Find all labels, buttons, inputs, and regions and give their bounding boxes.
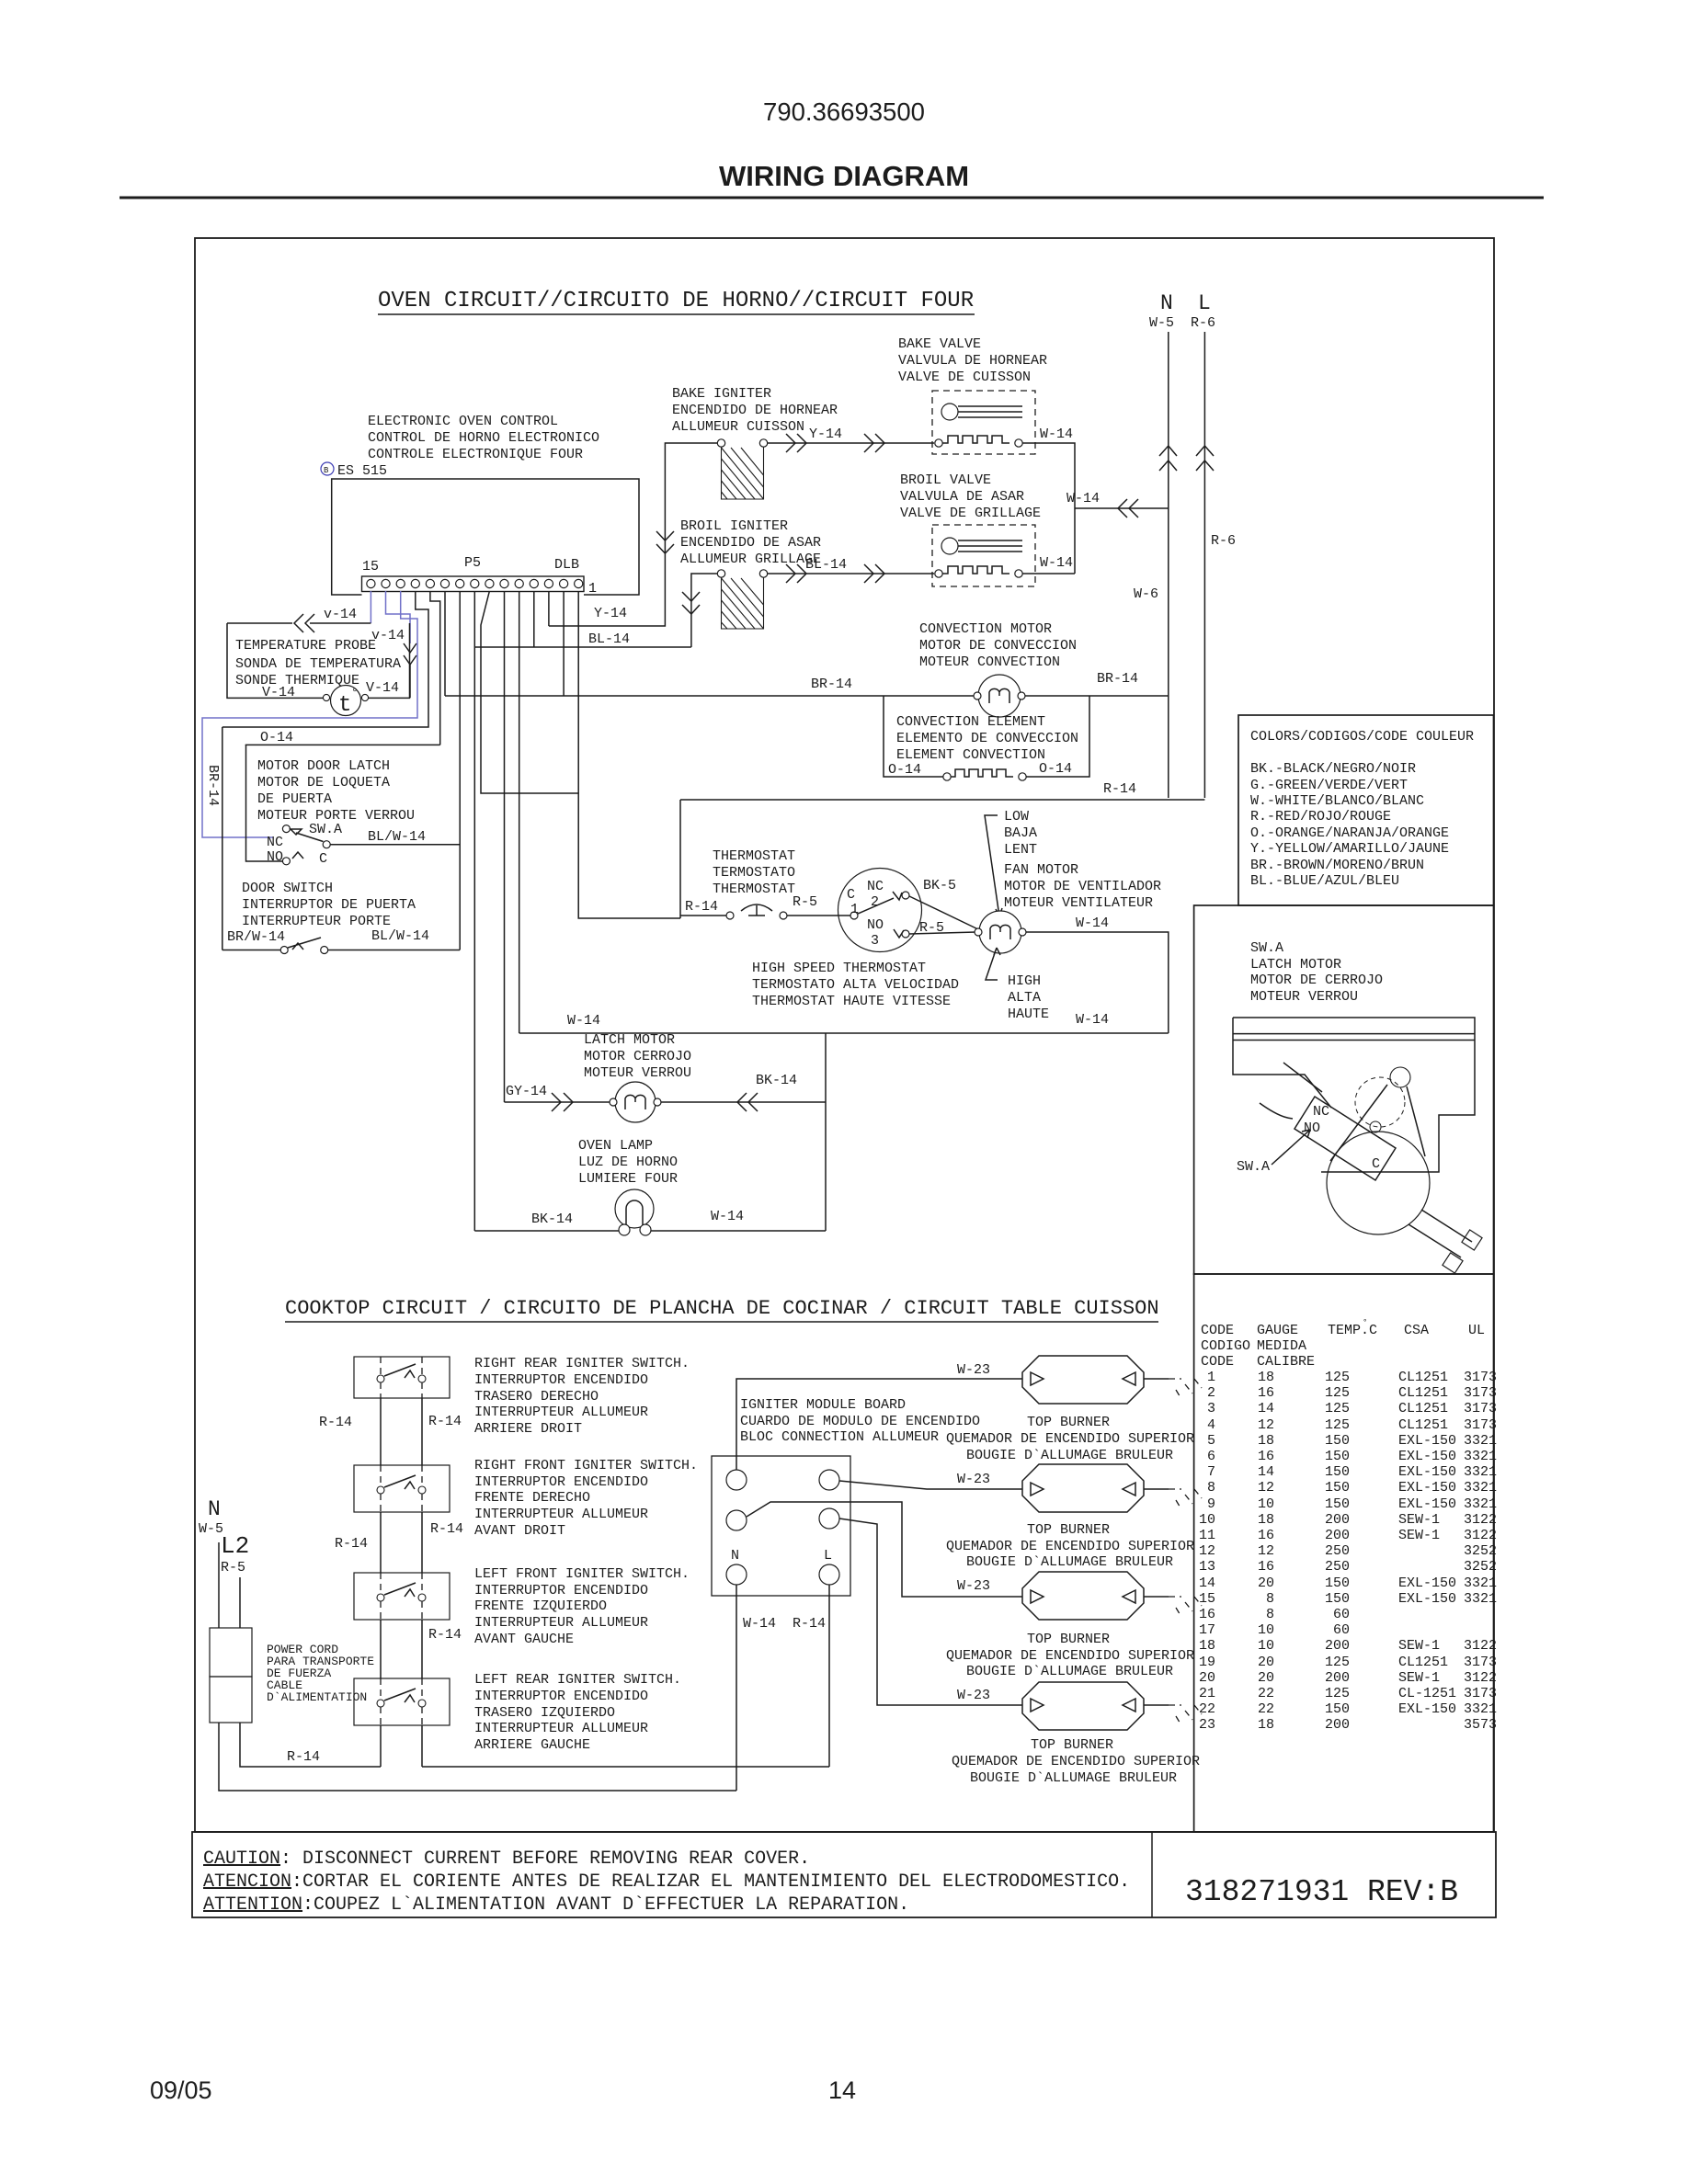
wire BK-14 latch motor — [661, 1033, 826, 1231]
top burner B3 octagon — [1022, 1572, 1144, 1620]
svg-text:17: 17 — [1199, 1622, 1215, 1638]
table rows — [1199, 1370, 1497, 1733]
svg-text:BLOC CONNECTION ALLUMEUR: BLOC CONNECTION ALLUMEUR — [740, 1429, 939, 1445]
svg-text:O.-ORANGE/NARANJA/ORANGE: O.-ORANGE/NARANJA/ORANGE — [1250, 825, 1449, 841]
svg-text:TOP BURNER: TOP BURNER — [1031, 1737, 1113, 1753]
wire pin6 to BR-14 line — [444, 591, 446, 696]
svg-text:EXL-150: EXL-150 — [1398, 1449, 1456, 1464]
svg-text:MOTEUR VERROU: MOTEUR VERROU — [1250, 989, 1358, 1005]
broil valve dashed box — [932, 525, 1035, 586]
svg-text:BROIL VALVE: BROIL VALVE — [900, 472, 991, 488]
svg-text:CONVECTION MOTOR: CONVECTION MOTOR — [919, 621, 1052, 637]
svg-text:W-14: W-14 — [1076, 916, 1109, 931]
wire BL/W-14 from common — [330, 844, 460, 846]
wire N to power cord — [218, 1542, 220, 1628]
svg-text:LATCH MOTOR: LATCH MOTOR — [584, 1032, 675, 1048]
svg-text:SW.A: SW.A — [1237, 1159, 1270, 1175]
latch lever line — [1260, 1063, 1322, 1119]
svg-text:W-23: W-23 — [957, 1472, 990, 1487]
wire pin15 to thermostat R-14 — [578, 591, 680, 918]
svg-text:SW.A: SW.A — [309, 822, 342, 837]
svg-text:EXL-150: EXL-150 — [1398, 1480, 1456, 1496]
wire pin2 violet jog — [386, 591, 411, 643]
svg-text:10: 10 — [1258, 1496, 1274, 1512]
svg-text:3173: 3173 — [1464, 1686, 1497, 1701]
wires between switch 2 and 3 — [381, 1512, 422, 1573]
svg-text:125: 125 — [1325, 1417, 1350, 1433]
svg-text:AVANT GAUCHE: AVANT GAUCHE — [474, 1632, 574, 1647]
svg-text:FAN MOTOR: FAN MOTOR — [1004, 862, 1078, 878]
wire pin7 to door switch — [459, 591, 461, 950]
svg-text:FRENTE IZQUIERDO: FRENTE IZQUIERDO — [474, 1598, 607, 1614]
svg-text:W-14: W-14 — [1040, 427, 1073, 442]
svg-text:W-14: W-14 — [743, 1616, 776, 1632]
svg-text:O-14: O-14 — [260, 730, 293, 745]
wire module to burner 3 — [747, 1502, 1022, 1597]
caution box — [192, 1832, 1496, 1917]
wire N power cord to module — [219, 1723, 736, 1791]
svg-text:3252: 3252 — [1464, 1543, 1497, 1559]
dashed contact risers box1 — [381, 1357, 422, 1398]
chevrons up on L — [1196, 446, 1214, 471]
wire pin8 to BL-14 and oven lamp — [473, 591, 475, 1231]
svg-text:MEDIDA: MEDIDA — [1257, 1338, 1306, 1354]
broil valve element — [935, 570, 942, 577]
svg-text:W-14: W-14 — [567, 1013, 600, 1029]
svg-text:TERMOSTATO ALTA VELOCIDAD: TERMOSTATO ALTA VELOCIDAD — [752, 977, 959, 993]
svg-text:ELEMENT CONVECTION: ELEMENT CONVECTION — [896, 747, 1045, 763]
svg-text:BK-5: BK-5 — [923, 878, 956, 893]
wire pin9 to R-14 bus — [481, 591, 578, 793]
wire R-14 power cord to switches — [240, 1723, 381, 1767]
svg-text:GAUGE: GAUGE — [1257, 1323, 1298, 1338]
svg-text:B: B — [324, 466, 329, 475]
wire L2 to power cord — [239, 1577, 241, 1628]
svg-text:22: 22 — [1199, 1701, 1215, 1717]
svg-text:°: ° — [1363, 1318, 1367, 1327]
wire lamp left BK-14 — [474, 1230, 619, 1232]
wire gauge table box — [1194, 1274, 1494, 1832]
switch S4 contacts — [377, 1486, 384, 1494]
svg-text:V-14: V-14 — [366, 680, 399, 696]
svg-text:TEMP.C: TEMP.C — [1328, 1323, 1377, 1338]
svg-text:N: N — [208, 1497, 221, 1521]
svg-text:MOTOR DOOR LATCH: MOTOR DOOR LATCH — [257, 758, 390, 774]
latch cone lines — [1330, 1085, 1425, 1161]
ES 515 logo — [321, 462, 334, 475]
svg-text:ALLUMEUR CUISSON: ALLUMEUR CUISSON — [672, 419, 804, 435]
svg-text:3573: 3573 — [1464, 1717, 1497, 1733]
svg-text:Y.-YELLOW/AMARILLO/JAUNE: Y.-YELLOW/AMARILLO/JAUNE — [1250, 841, 1449, 857]
latch cam small circle — [1390, 1067, 1410, 1087]
svg-text:THERMOSTAT HAUTE VITESSE: THERMOSTAT HAUTE VITESSE — [752, 994, 951, 1009]
chevrons GY-14 — [552, 1093, 573, 1111]
svg-text:3173: 3173 — [1464, 1401, 1497, 1416]
svg-text:O-14: O-14 — [1039, 761, 1072, 777]
svg-text:20: 20 — [1258, 1655, 1274, 1670]
wire bake igniter left to Y-14 drop — [549, 443, 717, 626]
svg-text:3321: 3321 — [1464, 1464, 1497, 1480]
svg-text:3122: 3122 — [1464, 1670, 1497, 1686]
latch cam dashed circle — [1355, 1077, 1405, 1127]
svg-text:LENT: LENT — [1004, 842, 1037, 858]
svg-text:ATENCION:CORTAR EL CORIENTE AN: ATENCION:CORTAR EL CORIENTE ANTES DE REA… — [203, 1871, 1130, 1893]
svg-text:18: 18 — [1258, 1717, 1274, 1733]
svg-text:CL1251: CL1251 — [1398, 1655, 1448, 1670]
svg-text:CL1251: CL1251 — [1398, 1401, 1448, 1416]
outer diagram frame — [195, 238, 1494, 1832]
svg-text:3122: 3122 — [1464, 1528, 1497, 1543]
svg-text:VALVULA DE ASAR: VALVULA DE ASAR — [900, 489, 1024, 505]
svg-text:125: 125 — [1325, 1385, 1350, 1401]
svg-text:VALVULA DE HORNEAR: VALVULA DE HORNEAR — [898, 353, 1047, 369]
svg-text:LATCH MOTOR: LATCH MOTOR — [1250, 957, 1341, 973]
svg-text:INTERRUPTEUR ALLUMEUR: INTERRUPTEUR ALLUMEUR — [474, 1721, 648, 1736]
svg-text:3321: 3321 — [1464, 1701, 1497, 1717]
wire N vertical — [1168, 332, 1169, 798]
svg-text:QUEMADOR DE ENCENDIDO SUPERIOR: QUEMADOR DE ENCENDIDO SUPERIOR — [946, 1648, 1194, 1664]
svg-text:200: 200 — [1325, 1670, 1350, 1686]
svg-text:3173: 3173 — [1464, 1370, 1497, 1385]
svg-text:COOKTOP CIRCUIT / CIRCUITO DE: COOKTOP CIRCUIT / CIRCUITO DE PLANCHA DE… — [285, 1297, 1159, 1320]
svg-text:R-14: R-14 — [793, 1616, 826, 1632]
bake valve element — [935, 439, 942, 447]
svg-text:TERMOSTATO: TERMOSTATO — [713, 865, 795, 881]
svg-text:8: 8 — [1266, 1607, 1274, 1622]
convection element box — [884, 696, 1089, 777]
svg-text:NC: NC — [1313, 1104, 1329, 1120]
v-14 arrowhead and break — [404, 643, 416, 698]
svg-text:19: 19 — [1199, 1655, 1215, 1670]
svg-text:BK-14: BK-14 — [756, 1073, 797, 1088]
wire pin11 to W-14 bus — [519, 591, 520, 1033]
svg-text:10: 10 — [1258, 1638, 1274, 1654]
svg-text:EXL-150: EXL-150 — [1398, 1575, 1456, 1591]
svg-text:W-6: W-6 — [1134, 586, 1158, 602]
svg-text:125: 125 — [1325, 1370, 1350, 1385]
svg-text:R-14: R-14 — [428, 1414, 462, 1429]
svg-text:t: t — [338, 693, 351, 718]
svg-text:L2: L2 — [221, 1532, 249, 1560]
svg-text:BR-14: BR-14 — [811, 677, 852, 692]
svg-text:D`ALIMENTATION: D`ALIMENTATION — [267, 1690, 367, 1704]
svg-text:EXL-150: EXL-150 — [1398, 1591, 1456, 1607]
selector contacts — [850, 912, 858, 919]
wires between switch 1 and 2 — [381, 1398, 422, 1465]
svg-text:INTERRUPTOR ENCENDIDO: INTERRUPTOR ENCENDIDO — [474, 1689, 648, 1704]
svg-text:FRENTE DERECHO: FRENTE DERECHO — [474, 1490, 590, 1506]
switch S3 contacts — [377, 1375, 384, 1382]
svg-text:BR.-BROWN/MORENO/BRUN: BR.-BROWN/MORENO/BRUN — [1250, 858, 1424, 873]
svg-text:1: 1 — [850, 902, 859, 917]
W-14 bus bottom — [519, 1032, 1169, 1034]
wire BL-14 broil igniter to broil valve — [768, 573, 934, 574]
wire module L down — [828, 1585, 830, 1767]
oven lamp DS1 — [615, 1189, 654, 1228]
svg-text:INTERRUPTEUR ALLUMEUR: INTERRUPTEUR ALLUMEUR — [474, 1507, 648, 1522]
svg-text:200: 200 — [1325, 1638, 1350, 1654]
svg-text:150: 150 — [1325, 1496, 1350, 1512]
svg-text:TEMPERATURE PROBE: TEMPERATURE PROBE — [235, 638, 376, 654]
SW.A latch motor box — [1194, 905, 1494, 1274]
bracket high to motor — [986, 948, 1000, 980]
svg-text:SEW-1: SEW-1 — [1398, 1670, 1440, 1686]
svg-text:R-14: R-14 — [1103, 781, 1136, 797]
svg-text:CL-1251: CL-1251 — [1398, 1686, 1456, 1701]
svg-text:BK-14: BK-14 — [531, 1211, 573, 1227]
svg-text:CONTROLE ELECTRONIQUE FOUR: CONTROLE ELECTRONIQUE FOUR — [368, 447, 583, 462]
svg-text:3: 3 — [1207, 1401, 1215, 1416]
connector P5 strip — [362, 576, 585, 592]
svg-text:ENCENDIDO DE ASAR: ENCENDIDO DE ASAR — [680, 535, 821, 551]
svg-text:R-5: R-5 — [793, 894, 817, 910]
down chevrons broil feed — [682, 592, 700, 614]
down chevrons on bake igniter feed — [656, 531, 674, 553]
igniter switch S5 box left front — [354, 1573, 450, 1620]
wire Y-14 bake igniter to bake valve — [768, 442, 934, 444]
svg-text:3122: 3122 — [1464, 1638, 1497, 1654]
svg-text:3321: 3321 — [1464, 1433, 1497, 1449]
svg-text:BOUGIE D`ALLUMAGE BRULEUR: BOUGIE D`ALLUMAGE BRULEUR — [966, 1664, 1173, 1679]
svg-text:125: 125 — [1325, 1401, 1350, 1416]
oven title underline — [378, 313, 975, 315]
latch assembly switch body — [1295, 1097, 1396, 1180]
igniter module board box — [712, 1456, 850, 1596]
svg-text:125: 125 — [1325, 1686, 1350, 1701]
svg-text:CAUTION: DISCONNECT CURRENT BE: CAUTION: DISCONNECT CURRENT BEFORE REMOV… — [203, 1848, 810, 1870]
wire O-14 run to door latch — [246, 745, 440, 861]
svg-text:13: 13 — [1199, 1559, 1215, 1575]
svg-text:BL-14: BL-14 — [805, 557, 847, 573]
svg-text:W-23: W-23 — [957, 1688, 990, 1703]
svg-text:INTERRUPTOR ENCENDIDO: INTERRUPTOR ENCENDIDO — [474, 1372, 648, 1388]
svg-text:MOTOR DE VENTILADOR: MOTOR DE VENTILADOR — [1004, 879, 1161, 894]
svg-text:W-14: W-14 — [1066, 491, 1100, 506]
svg-text:CONVECTION ELEMENT: CONVECTION ELEMENT — [896, 714, 1045, 730]
wire pin5 to O-14 — [430, 591, 440, 745]
temperature probe box — [227, 623, 410, 698]
temperature probe sensor t — [331, 686, 361, 716]
bracket low to motor — [985, 815, 1002, 916]
svg-text:BK.-BLACK/NEGRO/NOIR: BK.-BLACK/NEGRO/NOIR — [1250, 761, 1416, 777]
svg-text:HIGH SPEED THERMOSTAT: HIGH SPEED THERMOSTAT — [752, 961, 926, 976]
svg-text:BROIL IGNITER: BROIL IGNITER — [680, 518, 788, 534]
burner B1 right stub and spark gap — [1144, 1378, 1169, 1380]
svg-text:4: 4 — [1207, 1417, 1215, 1433]
caution box divider — [1151, 1832, 1153, 1917]
svg-text:1: 1 — [588, 581, 597, 597]
svg-text:22: 22 — [1258, 1686, 1274, 1701]
svg-text:BAJA: BAJA — [1004, 825, 1037, 841]
svg-text:QUEMADOR DE ENCENDIDO SUPERIOR: QUEMADOR DE ENCENDIDO SUPERIOR — [946, 1539, 1194, 1554]
svg-text:W-14: W-14 — [1040, 555, 1073, 571]
svg-text:HIGH: HIGH — [1008, 973, 1041, 989]
svg-text:ENCENDIDO DE HORNEAR: ENCENDIDO DE HORNEAR — [672, 403, 838, 418]
svg-text:150: 150 — [1325, 1701, 1350, 1717]
svg-text:18: 18 — [1258, 1370, 1274, 1385]
motor door latch outline box — [222, 727, 246, 950]
wire L vertical — [1203, 332, 1205, 798]
svg-text:20: 20 — [1199, 1670, 1215, 1686]
svg-text:W.-WHITE/BLANCO/BLANC: W.-WHITE/BLANCO/BLANC — [1250, 793, 1424, 809]
svg-text:TRASERO IZQUIERDO: TRASERO IZQUIERDO — [474, 1705, 615, 1721]
svg-text:R-6: R-6 — [1211, 533, 1236, 549]
wire pin10 to latch motor GY-14 — [504, 591, 506, 1102]
svg-text:INTERRUPTEUR ALLUMEUR: INTERRUPTEUR ALLUMEUR — [474, 1405, 648, 1420]
door switch contacts — [280, 947, 288, 954]
svg-text:NO: NO — [867, 917, 884, 933]
svg-text:21: 21 — [1199, 1686, 1215, 1701]
svg-text:RIGHT REAR IGNITER SWITCH.: RIGHT REAR IGNITER SWITCH. — [474, 1356, 690, 1371]
svg-text:CODIGO: CODIGO — [1201, 1338, 1250, 1354]
svg-text:SEW-1: SEW-1 — [1398, 1512, 1440, 1528]
switch S6 contacts — [377, 1700, 384, 1707]
svg-text:125: 125 — [1325, 1655, 1350, 1670]
R-14 bus top of fan box — [680, 800, 1204, 918]
svg-text:3252: 3252 — [1464, 1559, 1497, 1575]
svg-text:R-14: R-14 — [319, 1415, 352, 1430]
svg-text:R-14: R-14 — [685, 899, 718, 915]
svg-text:MOTOR DE LOQUETA: MOTOR DE LOQUETA — [257, 775, 390, 791]
svg-text:DOOR SWITCH: DOOR SWITCH — [242, 881, 333, 896]
igniter switch S6 box left rear — [354, 1678, 450, 1725]
svg-text:3122: 3122 — [1464, 1512, 1497, 1528]
svg-text:11: 11 — [1199, 1528, 1215, 1543]
svg-text:BL/W-14: BL/W-14 — [371, 928, 429, 944]
svg-text:QUEMADOR DE ENCENDIDO SUPERIOR: QUEMADOR DE ENCENDIDO SUPERIOR — [946, 1431, 1194, 1447]
svg-text:150: 150 — [1325, 1480, 1350, 1496]
svg-text:10: 10 — [1199, 1512, 1215, 1528]
burner B3 electrodes — [1031, 1590, 1135, 1603]
wire v-14 to temperature probe with break — [227, 622, 371, 624]
svg-text:09/05: 09/05 — [150, 2076, 212, 2104]
svg-text:DLB: DLB — [554, 557, 579, 573]
wire pin1 violet to temp probe — [370, 591, 371, 623]
svg-text:1: 1 — [1207, 1370, 1215, 1385]
svg-text:CL1251: CL1251 — [1398, 1385, 1448, 1401]
wire riser to N line — [1075, 507, 1169, 509]
svg-text:3321: 3321 — [1464, 1591, 1497, 1607]
svg-text:8: 8 — [1266, 1591, 1274, 1607]
svg-text:SONDA DE TEMPERATURA: SONDA DE TEMPERATURA — [235, 656, 401, 672]
svg-text:AVANT DROIT: AVANT DROIT — [474, 1523, 565, 1539]
wire lamp right W-14 — [651, 1230, 826, 1232]
svg-text:18: 18 — [1199, 1638, 1215, 1654]
svg-text:INTERRUPTEUR ALLUMEUR: INTERRUPTEUR ALLUMEUR — [474, 1615, 648, 1631]
high speed thermostat S2 circle — [838, 869, 922, 952]
fan motor M2 — [979, 911, 1021, 953]
igniter switch S3 box right rear — [354, 1357, 450, 1398]
svg-text:150: 150 — [1325, 1591, 1350, 1607]
wire BK-5 to fan motor — [909, 896, 980, 930]
bake igniter symbol — [717, 439, 724, 447]
broil valve coil symbol — [941, 538, 958, 554]
svg-text:OVEN CIRCUIT//CIRCUITO DE HORN: OVEN CIRCUIT//CIRCUITO DE HORNO//CIRCUIT… — [378, 289, 974, 313]
svg-text:5: 5 — [1207, 1433, 1215, 1449]
svg-text:VALVE DE CUISSON: VALVE DE CUISSON — [898, 370, 1031, 385]
svg-text:22: 22 — [1258, 1701, 1274, 1717]
svg-text:COLORS/CODIGOS/CODE COULEUR: COLORS/CODIGOS/CODE COULEUR — [1250, 729, 1474, 745]
svg-text:W-23: W-23 — [957, 1578, 990, 1594]
svg-text:DE PUERTA: DE PUERTA — [257, 791, 332, 807]
svg-text:150: 150 — [1325, 1464, 1350, 1480]
burner B3 right stub and spark gap — [1144, 1596, 1169, 1598]
svg-text:60: 60 — [1333, 1622, 1350, 1638]
svg-text:LUZ DE HORNO: LUZ DE HORNO — [578, 1155, 678, 1170]
svg-text:60: 60 — [1333, 1607, 1350, 1622]
switch S5 contacts — [377, 1594, 384, 1601]
svg-text:790.36693500: 790.36693500 — [763, 97, 925, 126]
svg-text:INTERRUPTEUR PORTE: INTERRUPTEUR PORTE — [242, 914, 391, 929]
svg-text:HAUTE: HAUTE — [1008, 1007, 1049, 1022]
svg-text:12: 12 — [1258, 1543, 1274, 1559]
wire R-14 to thermostat — [680, 915, 726, 916]
svg-text:INTERRUPTOR ENCENDIDO: INTERRUPTOR ENCENDIDO — [474, 1474, 648, 1490]
wire module to burner 1 — [736, 1379, 1022, 1470]
top burner B1 octagon — [1022, 1356, 1144, 1404]
svg-text:9: 9 — [1207, 1496, 1215, 1512]
svg-text:NC: NC — [867, 879, 884, 894]
chevrons on W-14 to N — [1118, 499, 1138, 518]
wires between switch 3 and 4 — [381, 1620, 422, 1678]
svg-text:Y-14: Y-14 — [594, 606, 627, 621]
svg-text:R-14: R-14 — [335, 1536, 368, 1552]
wire bake valve to right riser — [1022, 443, 1075, 574]
svg-text:12: 12 — [1258, 1417, 1274, 1433]
svg-text:NC: NC — [267, 835, 283, 850]
svg-text:RIGHT FRONT IGNITER SWITCH.: RIGHT FRONT IGNITER SWITCH. — [474, 1458, 698, 1473]
wire module to burner 2 — [839, 1481, 1022, 1489]
latch arm to feet — [1409, 1210, 1472, 1257]
svg-text:R-5: R-5 — [221, 1560, 245, 1575]
burner B4 electrodes — [1031, 1699, 1135, 1712]
wire fan motor W-14 to N drop — [1026, 932, 1169, 1033]
svg-text:G.-GREEN/VERDE/VERT: G.-GREEN/VERDE/VERT — [1250, 778, 1408, 793]
svg-text:P5: P5 — [464, 555, 481, 571]
svg-text:R-14: R-14 — [428, 1627, 462, 1643]
svg-text:BOUGIE D`ALLUMAGE BRULEUR: BOUGIE D`ALLUMAGE BRULEUR — [966, 1448, 1173, 1463]
wire broil valve to riser — [1022, 573, 1075, 574]
wire switches to module L — [422, 1766, 829, 1768]
svg-text:CALIBRE: CALIBRE — [1257, 1354, 1315, 1370]
wire BR-14 bus — [445, 695, 1169, 697]
svg-text:250: 250 — [1325, 1559, 1350, 1575]
svg-text:BR-14: BR-14 — [1097, 671, 1138, 687]
chevrons up on N — [1159, 446, 1177, 471]
svg-text:INTERRUPTOR ENCENDIDO: INTERRUPTOR ENCENDIDO — [474, 1583, 648, 1598]
svg-text:GY-14: GY-14 — [506, 1084, 547, 1099]
wire pin3 violet BR-14 long run — [202, 591, 417, 837]
svg-text:ES 515: ES 515 — [337, 463, 387, 479]
svg-text:CONTROL DE HORNO ELECTRONICO: CONTROL DE HORNO ELECTRONICO — [368, 430, 599, 446]
switch SW.A contacts — [282, 825, 290, 833]
svg-text:TOP BURNER: TOP BURNER — [1027, 1632, 1110, 1647]
svg-text:200: 200 — [1325, 1528, 1350, 1543]
latch cam pin circle — [1370, 1121, 1381, 1132]
svg-text:CSA: CSA — [1404, 1323, 1429, 1338]
svg-text:EXL-150: EXL-150 — [1398, 1496, 1456, 1512]
svg-text:QUEMADOR DE ENCENDIDO SUPERIOR: QUEMADOR DE ENCENDIDO SUPERIOR — [952, 1754, 1200, 1769]
control board U1 box — [332, 479, 639, 595]
svg-text:IGNITER MODULE BOARD: IGNITER MODULE BOARD — [740, 1397, 906, 1413]
svg-text:200: 200 — [1325, 1512, 1350, 1528]
svg-text:O-14: O-14 — [888, 762, 921, 778]
latch foot 2 — [1443, 1253, 1463, 1273]
svg-text:16: 16 — [1258, 1449, 1274, 1464]
header rule — [120, 197, 1544, 199]
svg-text:Y-14: Y-14 — [809, 427, 842, 442]
svg-text:3173: 3173 — [1464, 1417, 1497, 1433]
